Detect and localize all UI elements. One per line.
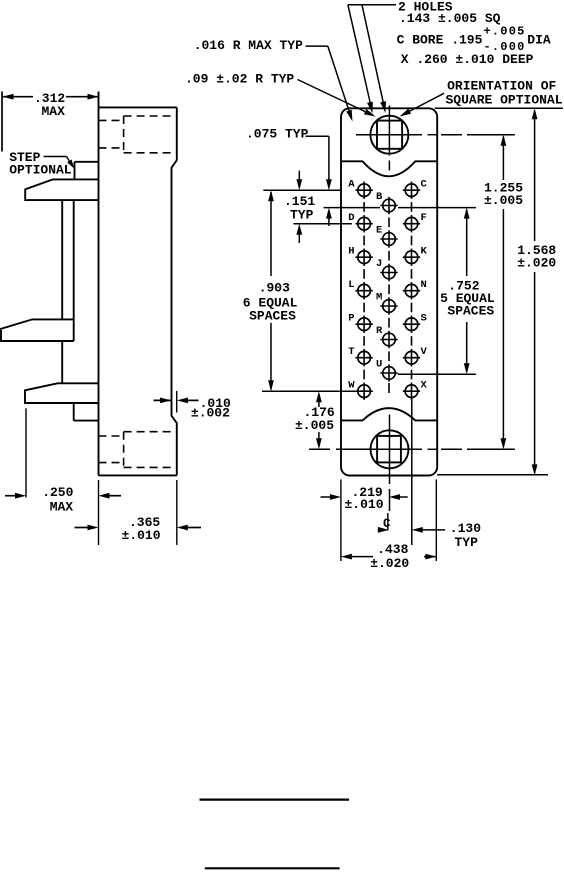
svg-text:.075 TYP: .075 TYP: [246, 126, 309, 141]
top hole horizontal centerline: [356, 134, 515, 136]
svg-text:MAX: MAX: [42, 104, 66, 119]
row D datum line: [293, 223, 352, 225]
dimension .903 6 EQUAL SPACES: [243, 190, 298, 391]
svg-text:.143 ±.005 SQ: .143 ±.005 SQ: [399, 11, 501, 26]
upper mounting flange: [25, 179, 98, 200]
bottom mounting hole square: [377, 436, 401, 463]
footer rule upper: [200, 798, 350, 800]
pin J: [376, 258, 398, 281]
svg-text:V: V: [421, 346, 428, 358]
left pin column centerline dashes: [363, 202, 365, 379]
svg-text:ORIENTATION OF: ORIENTATION OF: [447, 79, 556, 94]
pin V: [403, 346, 428, 366]
dimension 1.568 +-.020: [517, 108, 556, 475]
dimension .438 +-.020: [341, 542, 436, 571]
svg-text:TYP: TYP: [455, 535, 479, 550]
svg-text:S: S: [421, 313, 427, 325]
plate bottom edge extension: [437, 474, 548, 476]
centerline symbol: [383, 513, 391, 531]
svg-text:SPACES: SPACES: [447, 304, 494, 319]
pin S: [403, 313, 427, 333]
dimension .176 +-.005: [295, 391, 335, 449]
extension lines below plate: [341, 479, 436, 561]
svg-text:MAX: MAX: [50, 499, 74, 514]
pin N: [403, 279, 427, 299]
contact pins lower segment: [61, 341, 63, 383]
row U datum line: [398, 373, 476, 375]
pin K: [403, 246, 428, 266]
hidden square hole top (dashed): [99, 116, 176, 153]
bottom scallop edge: [341, 408, 437, 420]
pin C: [403, 179, 428, 199]
svg-text:W: W: [348, 380, 355, 392]
leader from 2 HOLES note to hole square (middle): [362, 5, 386, 113]
svg-text:TYP: TYP: [290, 207, 314, 222]
row W datum line: [262, 390, 355, 392]
svg-text:.016 R MAX TYP: .016 R MAX TYP: [194, 38, 303, 53]
pin E: [376, 225, 398, 248]
hidden square hole bottom (dashed): [99, 432, 176, 468]
bottom hole vertical centerline: [389, 415, 391, 512]
top mounting hole counterbore circle: [370, 116, 408, 154]
step on body: [75, 162, 99, 180]
dimension .365 +-.010: [75, 515, 202, 543]
leader from ORIENTATION note to hole: [400, 93, 445, 116]
lower mounting flange: [25, 383, 99, 403]
svg-text:±.010: ±.010: [345, 497, 384, 512]
dimension .130 TYP: [378, 521, 482, 550]
bottom hole horizontal centerline: [309, 448, 515, 450]
right pin column centerline dashes: [411, 202, 413, 379]
dimension .752 5 EQUAL SPACES: [440, 208, 495, 375]
svg-text:±.020: ±.020: [370, 556, 409, 571]
note .016 R MAX TYP with leader: [194, 38, 353, 122]
row B datum line: [324, 207, 476, 209]
svg-text:D: D: [348, 212, 354, 224]
svg-text:.903: .903: [259, 281, 290, 296]
svg-text:±.020: ±.020: [517, 256, 556, 271]
pin W: [348, 380, 373, 400]
svg-text:K: K: [421, 246, 428, 258]
extension line below lower flange: [25, 408, 27, 497]
svg-text:SQUARE OPTIONAL: SQUARE OPTIONAL: [446, 92, 563, 107]
label STEP OPTIONAL with leader: [9, 150, 74, 178]
top mounting hole square: [377, 121, 402, 149]
pin B: [376, 191, 398, 214]
dimension .151 TYP: [284, 171, 315, 243]
svg-text:±.010: ±.010: [122, 528, 161, 543]
svg-text:±.002: ±.002: [191, 406, 230, 421]
pin M: [376, 292, 398, 315]
svg-text:C BORE .195: C BORE .195: [397, 33, 483, 48]
top scallop edge: [341, 161, 437, 176]
leader from 2 HOLES note to hole square (left): [348, 5, 396, 114]
svg-text:M: M: [376, 292, 382, 304]
pin L: [348, 279, 373, 299]
boss below lower flange: [74, 403, 99, 421]
top hole vertical centerline: [388, 106, 390, 171]
side view body outline: [99, 92, 177, 476]
dimension .075 TYP with leader: [246, 126, 332, 226]
plate top edge extension / SQUARE OPTIONAL underline: [435, 107, 563, 109]
pin U: [376, 359, 398, 382]
pin H: [348, 246, 373, 266]
middle pin column centerline dashes: [388, 217, 390, 393]
pin P: [348, 313, 373, 333]
svg-text:F: F: [421, 212, 427, 224]
dimension .250 MAX: [5, 485, 121, 514]
svg-text:T: T: [348, 346, 354, 358]
svg-text:.250: .250: [42, 485, 73, 500]
row A datum line: [263, 189, 341, 191]
svg-text:A: A: [348, 179, 355, 191]
pin A: [348, 179, 373, 199]
dimension .312 MAX: [3, 91, 99, 119]
svg-text:SPACES: SPACES: [249, 308, 296, 323]
dimension .010 +-.002: [154, 391, 232, 421]
dimension .219 +-.010: [321, 485, 408, 512]
svg-text:H: H: [348, 246, 354, 258]
svg-text:±.005: ±.005: [484, 193, 523, 208]
pin D: [348, 212, 373, 232]
svg-text:R: R: [376, 325, 383, 337]
pin R: [376, 325, 398, 348]
svg-text:X .260 ±.010 DEEP: X .260 ±.010 DEEP: [401, 52, 534, 67]
svg-text:DIA: DIA: [527, 33, 551, 48]
svg-text:X: X: [421, 380, 428, 392]
front view plate outline: [341, 108, 437, 475]
svg-text:B: B: [376, 191, 383, 203]
svg-text:U: U: [376, 359, 382, 371]
svg-text:L: L: [348, 279, 354, 291]
svg-text:E: E: [376, 225, 382, 237]
svg-text:J: J: [376, 258, 382, 270]
note .09 +-.02 R TYP with leader: [185, 71, 376, 116]
svg-text:.130: .130: [450, 521, 481, 536]
svg-text:P: P: [348, 313, 354, 325]
svg-text:.09 ±.02 R TYP: .09 ±.02 R TYP: [185, 71, 294, 86]
extension lines below body: [99, 480, 177, 545]
pin X: [403, 380, 428, 400]
pin T: [348, 346, 373, 366]
dimension 1.255 +-.005: [484, 135, 523, 450]
svg-text:OPTIONAL: OPTIONAL: [9, 162, 72, 177]
note 2 HOLES .143 SQ C BORE: [397, 0, 551, 67]
svg-text:.438: .438: [377, 542, 408, 557]
footer rule lower: [205, 867, 340, 869]
note ORIENTATION OF SQUARE OPTIONAL: [446, 79, 563, 108]
right pin column extension below plate: [411, 398, 413, 545]
pin F: [403, 212, 427, 232]
middle flange: [0, 319, 74, 341]
contact pins upper segment: [62, 200, 73, 341]
bottom mounting hole counterbore circle: [371, 430, 409, 468]
svg-text:+.005: +.005: [484, 25, 526, 39]
svg-text:C: C: [421, 179, 428, 191]
svg-text:N: N: [421, 279, 427, 291]
svg-text:±.005: ±.005: [295, 418, 334, 433]
side view left extension line: [1, 92, 3, 152]
